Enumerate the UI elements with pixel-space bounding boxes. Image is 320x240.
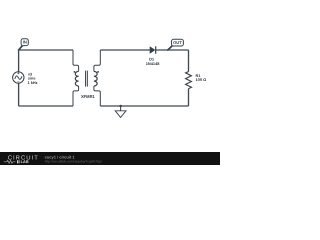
svg-text:XFMR1: XFMR1 <box>81 94 96 99</box>
wire bottom-left rail <box>19 105 73 107</box>
logo CircuitLab <box>4 154 39 164</box>
voltage source V3 <box>13 72 24 83</box>
wire top-left <box>19 49 73 51</box>
flag OUT <box>168 39 184 50</box>
svg-text:http://circuitlab.com/c6qsba/7: http://circuitlab.com/c6qsba/7cg9m75p/ <box>45 160 102 164</box>
wire source top lead <box>18 50 20 72</box>
flag IN <box>19 39 29 50</box>
resistor R1 <box>186 72 192 89</box>
diode D1 <box>150 46 156 53</box>
svg-text:100 Ω: 100 Ω <box>196 77 207 82</box>
wire resistor bottom lead <box>188 89 190 106</box>
wire source bottom lead <box>18 83 20 106</box>
label D1 <box>146 56 160 66</box>
wire bottom-right rail <box>100 105 188 107</box>
watermark bar <box>0 152 220 165</box>
transformer XFMR1 <box>73 50 100 106</box>
svg-text:LAB: LAB <box>21 160 29 164</box>
wire secondary to diode <box>100 49 150 51</box>
label R1 <box>196 73 207 82</box>
wire diode to corner <box>156 49 189 51</box>
wire right vertical top <box>188 50 190 72</box>
ground <box>115 105 126 118</box>
label V3 <box>28 73 38 85</box>
svg-text:IN: IN <box>23 40 27 45</box>
svg-text:1N4148: 1N4148 <box>146 61 160 66</box>
svg-text:OUT: OUT <box>173 40 182 45</box>
svg-text:1 kHz: 1 kHz <box>28 81 38 85</box>
